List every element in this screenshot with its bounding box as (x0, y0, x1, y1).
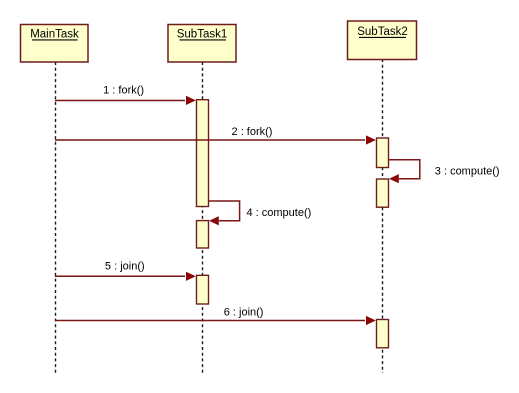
object MainTask (21, 25, 89, 63)
lifeline SubTask2 (382, 59, 384, 373)
activation bar SubTask1 B (197, 221, 209, 248)
message 2 : fork() (55, 126, 376, 145)
svg-text:2 : fork(): 2 : fork() (232, 126, 273, 138)
svg-text:5 : join(): 5 : join() (105, 261, 145, 273)
svg-text:3 : compute(): 3 : compute() (435, 166, 500, 178)
activation bar SubTask1 A (197, 100, 209, 207)
activation bar SubTask2 B (377, 179, 389, 207)
message 3 : compute() (self) (389, 160, 500, 184)
message 6 : join() (55, 307, 376, 326)
message 4 : compute() (self) (209, 201, 312, 225)
svg-text:SubTask1: SubTask1 (177, 29, 228, 41)
message 1 : fork() (55, 85, 196, 105)
activation bar SubTask1 C (197, 275, 209, 304)
svg-text:4 : compute(): 4 : compute() (246, 207, 311, 219)
object SubTask1 (168, 25, 236, 63)
svg-text:SubTask2: SubTask2 (357, 26, 408, 38)
svg-text:1 : fork(): 1 : fork() (103, 85, 144, 97)
svg-text:MainTask: MainTask (30, 29, 79, 41)
activation bar SubTask2 A (377, 138, 389, 168)
lifeline MainTask (55, 62, 57, 373)
message 5 : join() (55, 261, 196, 281)
activation bar SubTask2 C (377, 320, 389, 348)
svg-text:6 : join(): 6 : join() (224, 307, 264, 319)
object SubTask2 (348, 21, 417, 60)
lifeline SubTask1 (202, 62, 204, 373)
